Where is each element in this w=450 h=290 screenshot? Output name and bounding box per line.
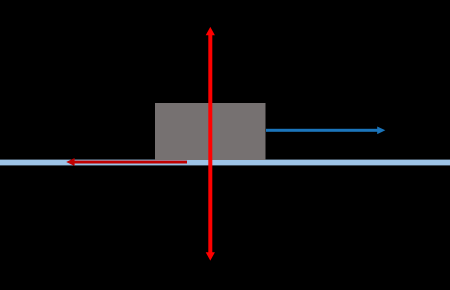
friction force arrow (red, pointing left)	[66, 158, 187, 166]
normal/weight force arrow (red, vertical double-headed)	[206, 27, 215, 261]
ground surface line	[0, 160, 450, 166]
applied force arrow (blue, pointing right)	[266, 127, 385, 135]
block (box on surface)	[155, 103, 266, 160]
